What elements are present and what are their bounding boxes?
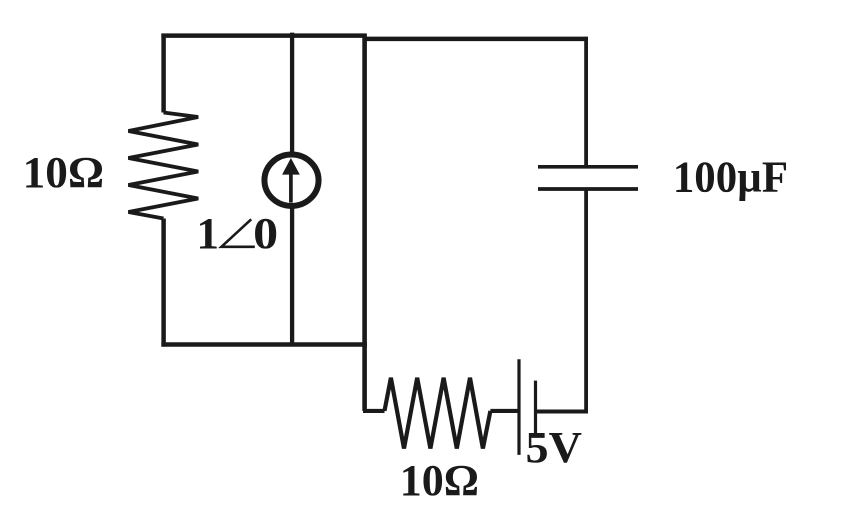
svg-text:5V: 5V (526, 423, 583, 472)
svg-text:100µF: 100µF (673, 153, 788, 202)
svg-text:10Ω: 10Ω (23, 148, 104, 197)
svg-text:1: 1 (196, 209, 219, 258)
svg-text:0: 0 (253, 209, 278, 258)
svg-text:10Ω: 10Ω (400, 456, 479, 505)
